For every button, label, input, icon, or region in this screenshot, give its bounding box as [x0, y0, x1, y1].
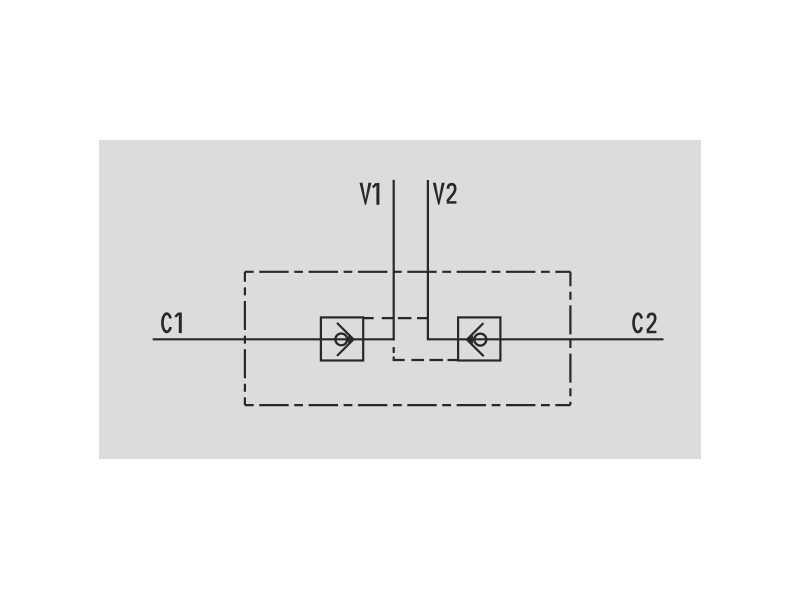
check valve body square (left) — [321, 317, 363, 360]
wire: V1 vertical line down to C1 junction — [393, 180, 395, 341]
label C2 — [634, 314, 657, 332]
check valve body square (right) — [458, 317, 500, 360]
gray panel background — [99, 140, 701, 459]
check valve seat lines (right) — [467, 323, 484, 356]
check valve seat wedge (left) — [348, 335, 353, 343]
label V2 — [433, 183, 457, 205]
wire: pilot dashed line from left valve top corner to V2 — [363, 317, 428, 319]
check valve seat wedge (right) — [467, 335, 473, 344]
enclosure dash-dot boundary: left edge — [244, 272, 246, 405]
wire: V2 vertical line with elbow into C2 main line through right check valve — [428, 180, 664, 339]
label V1 — [360, 183, 378, 205]
enclosure dash-dot boundary: top edge — [245, 271, 571, 273]
enclosure dash-dot boundary: right edge — [569, 272, 571, 405]
check valve ball (right) — [474, 334, 486, 346]
enclosure dash-dot boundary: bottom edge — [245, 404, 571, 406]
check valve seat lines (left) — [337, 323, 354, 356]
wire: pilot dashed line from V1 down and right to right valve bottom corner — [394, 347, 458, 360]
label C1 — [162, 313, 180, 334]
wire: C1 main line from left end through left check valve to node at V1 — [153, 338, 395, 340]
check valve ball (left) — [335, 334, 347, 346]
